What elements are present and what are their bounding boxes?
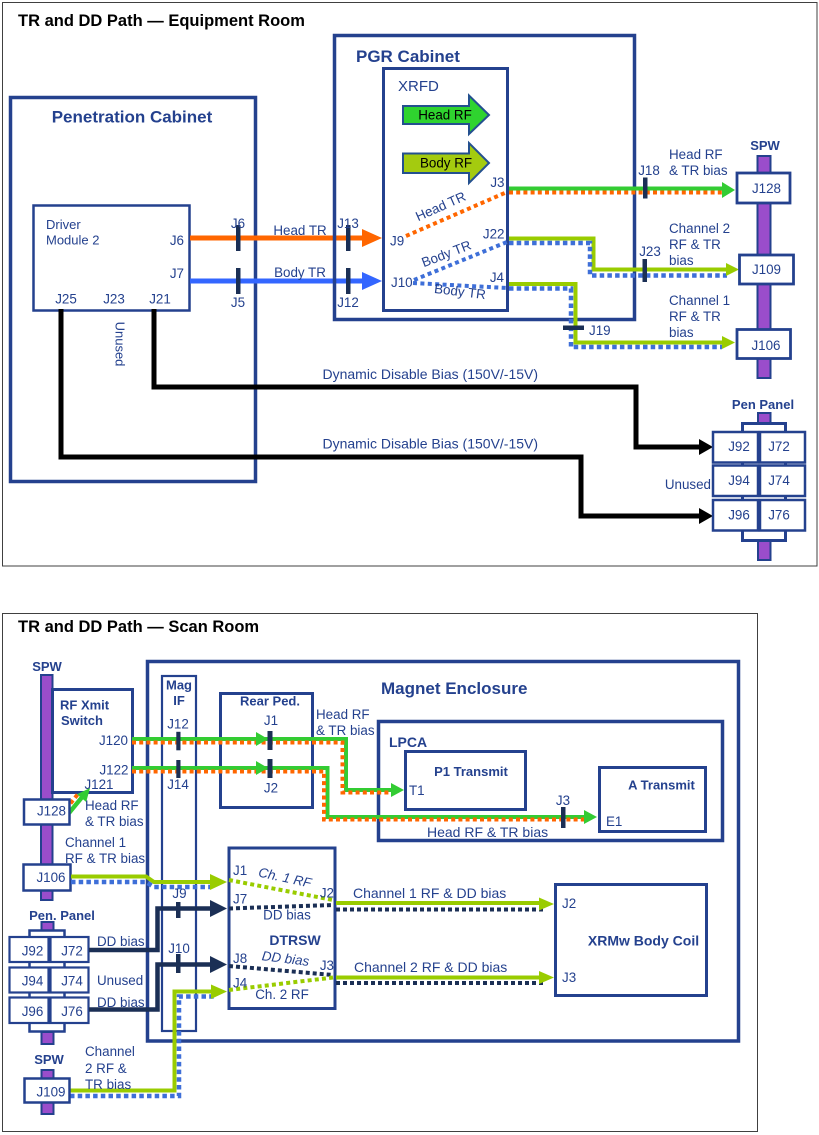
svg-text:Body RF: Body RF — [420, 156, 472, 171]
svg-text:Unused: Unused — [97, 973, 143, 988]
svg-text:TR and DD Path — Scan Room: TR and DD Path — Scan Room — [18, 618, 259, 636]
svg-text:J5: J5 — [231, 295, 245, 310]
svg-text:J6: J6 — [170, 233, 184, 248]
svg-text:J10: J10 — [391, 275, 413, 290]
svg-text:J7: J7 — [233, 892, 247, 907]
svg-text:J13: J13 — [337, 216, 359, 231]
svg-text:J9: J9 — [390, 234, 404, 249]
svg-text:& TR bias: & TR bias — [85, 814, 144, 829]
svg-text:TR bias: TR bias — [85, 1077, 131, 1092]
svg-text:DD bias: DD bias — [97, 934, 145, 949]
svg-text:J3: J3 — [320, 958, 334, 973]
svg-text:Channel 1: Channel 1 — [65, 835, 126, 850]
svg-text:J120: J120 — [99, 733, 128, 748]
svg-text:J4: J4 — [490, 270, 505, 285]
svg-text:J21: J21 — [149, 292, 171, 307]
svg-text:J128: J128 — [37, 804, 66, 819]
svg-text:J109: J109 — [752, 262, 781, 277]
svg-text:Switch: Switch — [61, 713, 103, 728]
svg-text:J109: J109 — [36, 1085, 65, 1100]
svg-text:Channel 2 RF & DD bias: Channel 2 RF & DD bias — [354, 959, 507, 975]
svg-text:J1: J1 — [264, 713, 278, 728]
svg-text:J2: J2 — [320, 886, 334, 901]
svg-text:& TR bias: & TR bias — [669, 163, 728, 178]
svg-text:J7: J7 — [170, 266, 184, 281]
svg-text:Unused: Unused — [665, 477, 711, 492]
svg-text:J10: J10 — [168, 941, 190, 956]
svg-text:J9: J9 — [172, 886, 186, 901]
svg-text:J18: J18 — [638, 163, 660, 178]
svg-text:Dynamic Disable Bias (150V/-15: Dynamic Disable Bias (150V/-15V) — [323, 366, 539, 382]
svg-text:Head RF: Head RF — [418, 108, 472, 123]
svg-text:Mag: Mag — [166, 678, 192, 693]
svg-text:SPW: SPW — [34, 1052, 64, 1067]
svg-text:Pen Panel: Pen Panel — [732, 397, 794, 412]
svg-text:Head TR: Head TR — [273, 223, 327, 238]
svg-text:J6: J6 — [231, 216, 245, 231]
svg-text:J106: J106 — [751, 338, 780, 353]
svg-text:J106: J106 — [36, 870, 65, 885]
svg-text:Pen. Panel: Pen. Panel — [29, 908, 95, 923]
svg-text:IF: IF — [173, 693, 185, 708]
svg-text:bias: bias — [669, 325, 694, 340]
svg-text:J74: J74 — [61, 974, 83, 989]
svg-text:Dynamic Disable Bias (150V/-15: Dynamic Disable Bias (150V/-15V) — [323, 436, 539, 452]
svg-text:LPCA: LPCA — [389, 734, 427, 750]
svg-text:Channel: Channel — [85, 1044, 135, 1059]
svg-text:RF & TR bias: RF & TR bias — [65, 851, 145, 866]
svg-text:SPW: SPW — [32, 659, 62, 674]
svg-text:J72: J72 — [768, 439, 790, 454]
svg-text:SPW: SPW — [750, 138, 780, 153]
svg-text:E1: E1 — [606, 814, 622, 829]
svg-text:J2: J2 — [264, 781, 278, 796]
svg-text:J122: J122 — [99, 763, 128, 778]
svg-text:RF & TR: RF & TR — [669, 309, 721, 324]
svg-text:Magnet Enclosure: Magnet Enclosure — [381, 679, 527, 698]
svg-text:T1: T1 — [409, 783, 425, 798]
svg-text:Driver: Driver — [46, 217, 81, 232]
svg-text:A Transmit: A Transmit — [628, 778, 695, 793]
svg-text:Head RF & TR bias: Head RF & TR bias — [427, 824, 548, 840]
svg-text:Penetration Cabinet: Penetration Cabinet — [52, 108, 213, 127]
svg-text:Channel 1: Channel 1 — [669, 293, 730, 308]
svg-text:J8: J8 — [233, 951, 247, 966]
svg-text:2 RF &: 2 RF & — [85, 1061, 127, 1076]
svg-text:J12: J12 — [167, 717, 189, 732]
svg-text:Unused: Unused — [113, 322, 128, 367]
svg-text:J23: J23 — [103, 292, 125, 307]
svg-text:Head RF: Head RF — [85, 798, 139, 813]
svg-text:J4: J4 — [233, 976, 248, 991]
svg-text:J3: J3 — [562, 970, 576, 985]
svg-text:Ch. 2 RF: Ch. 2 RF — [255, 987, 309, 1002]
svg-text:J1: J1 — [233, 863, 247, 878]
svg-text:J92: J92 — [728, 439, 750, 454]
svg-text:J94: J94 — [22, 974, 44, 989]
svg-text:J25: J25 — [55, 292, 77, 307]
svg-text:J76: J76 — [768, 508, 790, 523]
svg-text:RF & TR: RF & TR — [669, 237, 721, 252]
svg-text:J19: J19 — [589, 323, 611, 338]
svg-text:Head RF: Head RF — [316, 707, 370, 722]
svg-text:RF Xmit: RF Xmit — [60, 698, 110, 713]
svg-text:TR and DD Path — Equipment Roo: TR and DD Path — Equipment Room — [18, 12, 305, 30]
svg-text:J3: J3 — [490, 175, 504, 190]
svg-text:J72: J72 — [61, 944, 83, 959]
svg-text:J3: J3 — [556, 793, 570, 808]
svg-text:Head RF: Head RF — [669, 147, 723, 162]
svg-text:J2: J2 — [562, 896, 576, 911]
svg-text:bias: bias — [669, 253, 694, 268]
svg-text:Body TR: Body TR — [274, 265, 326, 280]
svg-text:J74: J74 — [768, 473, 790, 488]
svg-text:J14: J14 — [167, 777, 189, 792]
svg-text:Rear Ped.: Rear Ped. — [240, 694, 300, 709]
svg-text:J96: J96 — [728, 508, 750, 523]
svg-text:J96: J96 — [22, 1004, 44, 1019]
svg-text:XRMw Body Coil: XRMw Body Coil — [588, 933, 699, 949]
svg-text:J76: J76 — [61, 1004, 83, 1019]
svg-text:J128: J128 — [752, 181, 781, 196]
svg-text:& TR bias: & TR bias — [316, 723, 375, 738]
svg-text:DD bias: DD bias — [263, 908, 311, 923]
svg-text:P1 Transmit: P1 Transmit — [434, 764, 508, 779]
svg-text:Module 2: Module 2 — [46, 233, 99, 248]
svg-text:J94: J94 — [728, 473, 750, 488]
svg-text:J92: J92 — [22, 944, 44, 959]
svg-text:DTRSW: DTRSW — [269, 932, 321, 948]
svg-text:Channel 1 RF & DD bias: Channel 1 RF & DD bias — [353, 885, 506, 901]
svg-text:J23: J23 — [639, 244, 661, 259]
svg-text:XRFD: XRFD — [398, 78, 439, 95]
svg-text:J12: J12 — [337, 295, 359, 310]
svg-text:J22: J22 — [483, 227, 505, 242]
svg-text:PGR Cabinet: PGR Cabinet — [356, 47, 460, 66]
svg-text:Channel 2: Channel 2 — [669, 221, 730, 236]
